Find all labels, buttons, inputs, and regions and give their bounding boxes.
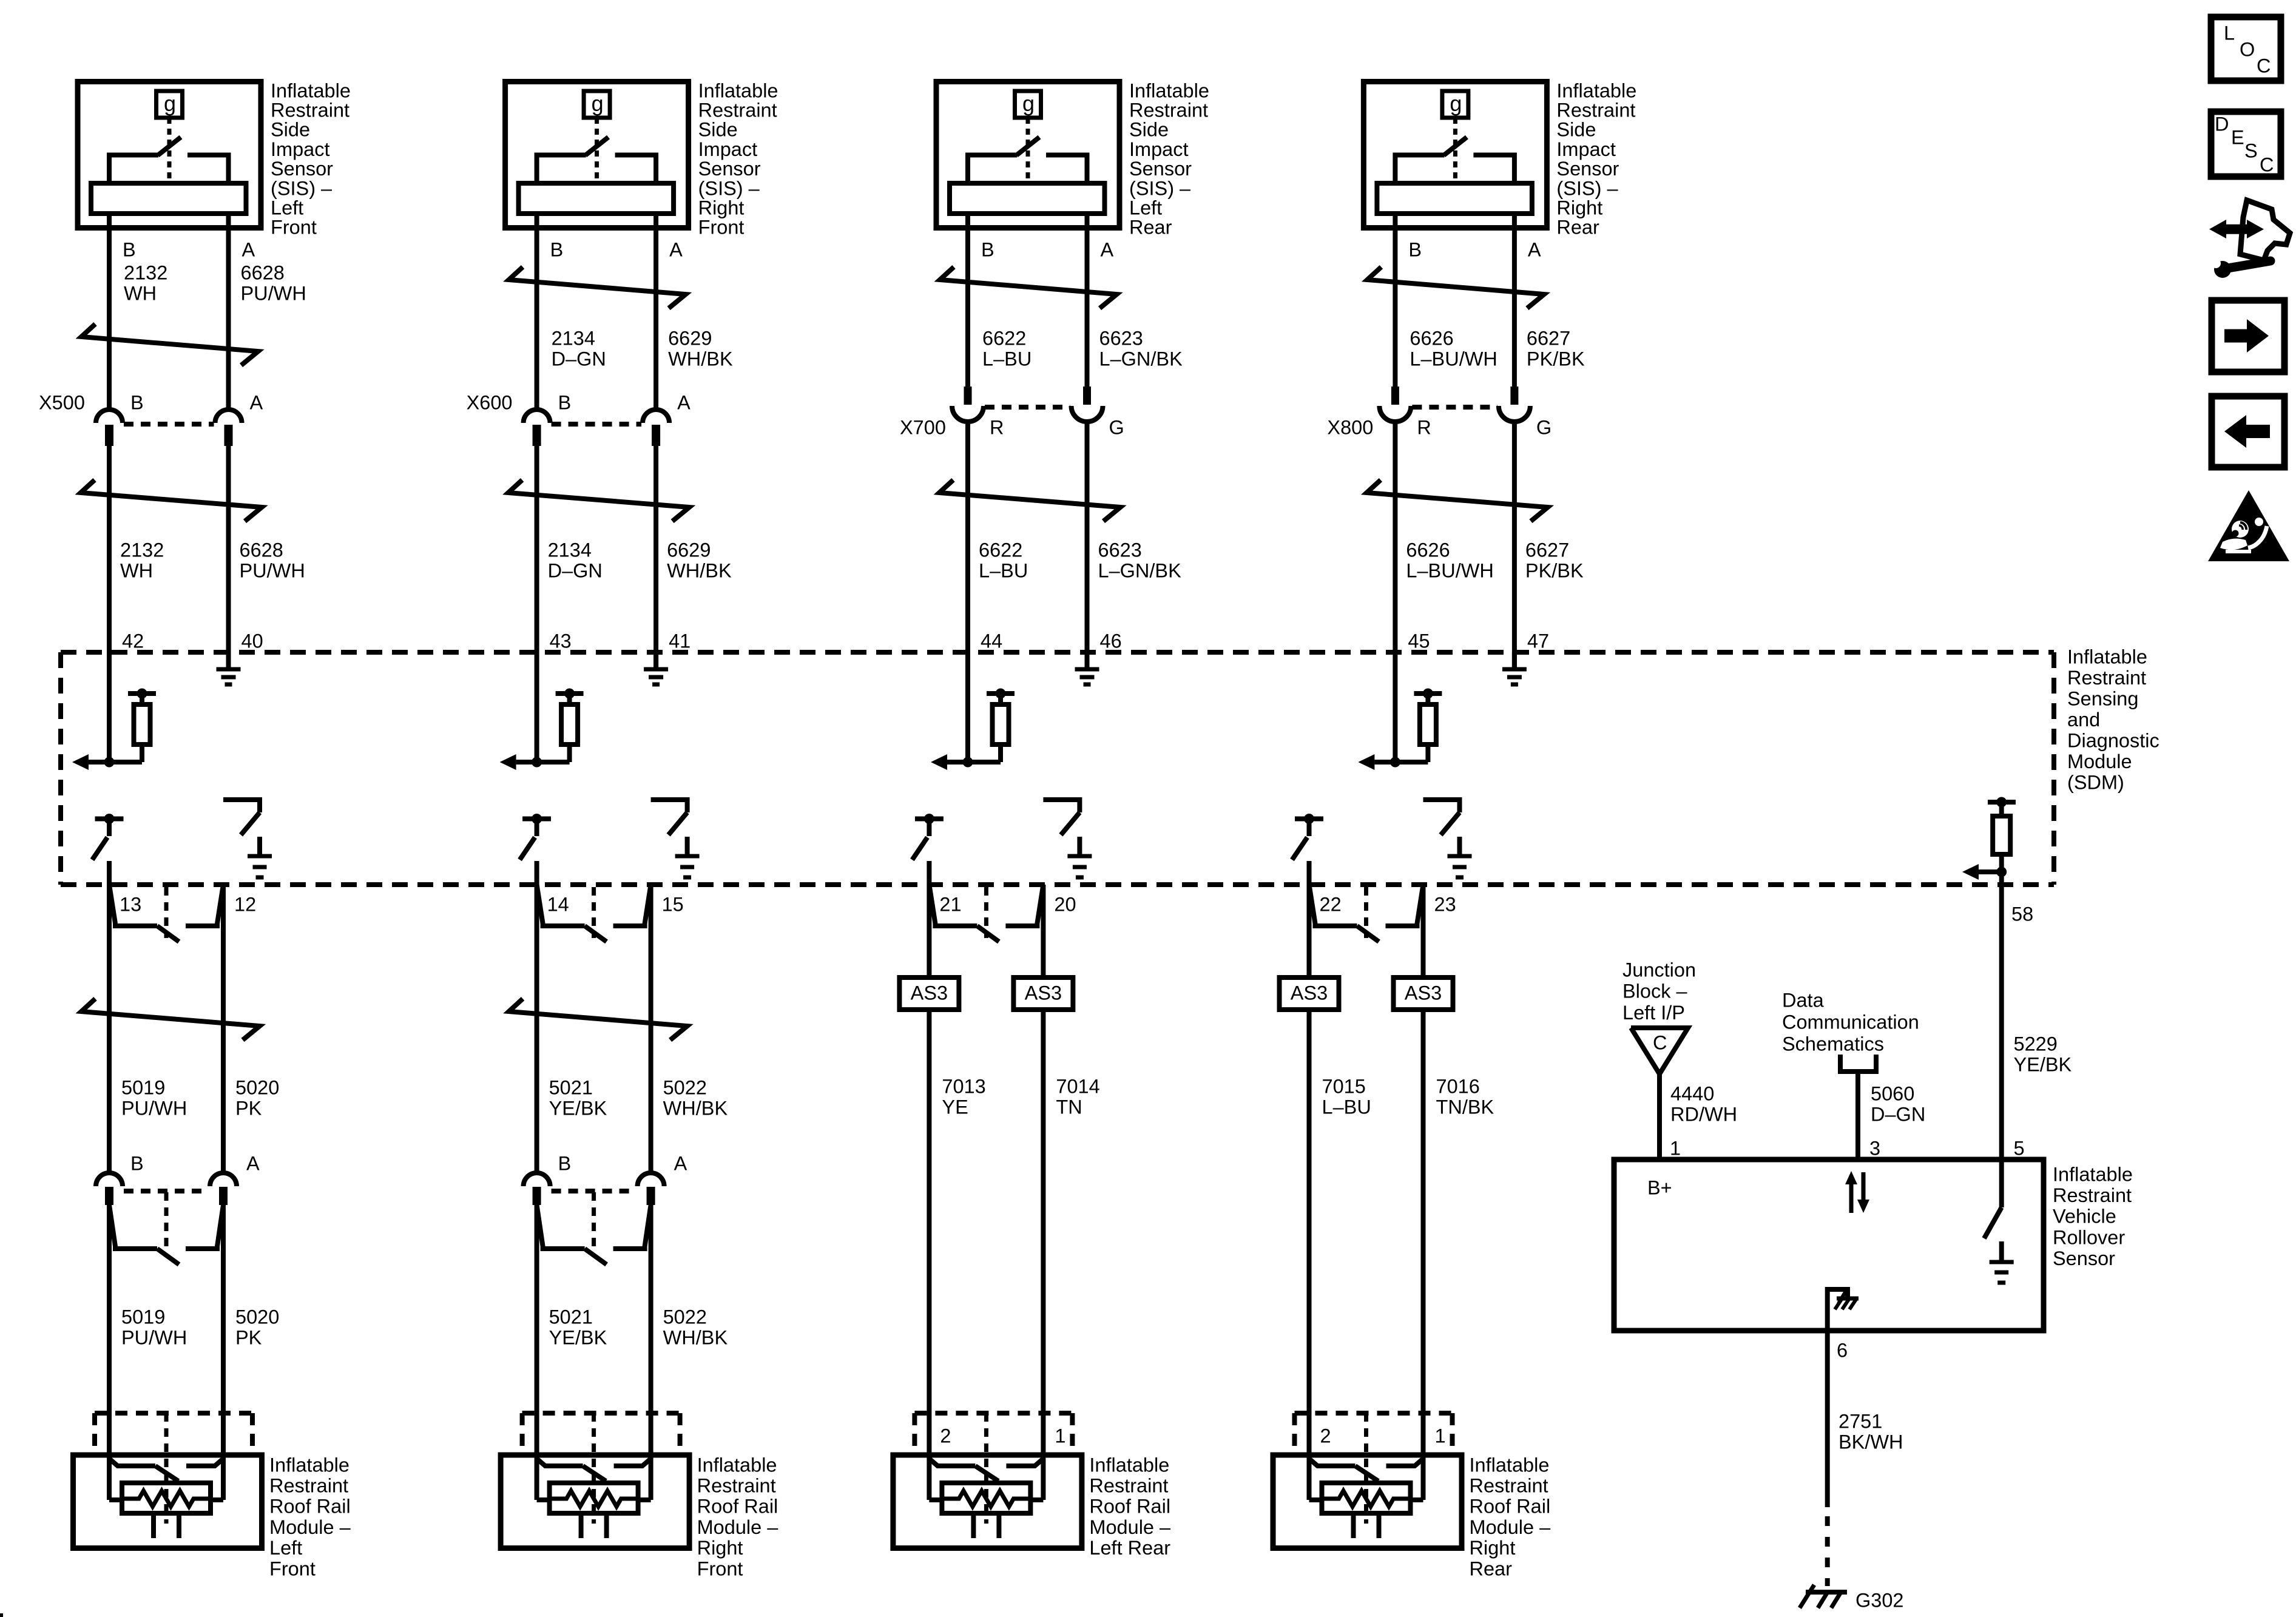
svg-text:6623: 6623	[1099, 327, 1143, 349]
in-line connector cavity B	[96, 1173, 123, 1205]
module internal connector left half	[537, 1459, 606, 1481]
SIS Left Front left contact	[109, 155, 158, 183]
wire label 6627 PK/BK	[1527, 327, 1585, 370]
svg-text:5019: 5019	[121, 1076, 165, 1098]
SIS Left Rear sensing element bar	[950, 183, 1105, 214]
right squib wire lower segment	[1041, 1011, 1045, 1451]
module squib wire right	[1411, 1451, 1423, 1500]
svg-text:23: 23	[1434, 893, 1456, 915]
svg-text:TN: TN	[1056, 1096, 1082, 1118]
svg-text:Restraint: Restraint	[1129, 100, 1208, 121]
SIS Right Front right contact	[615, 155, 657, 183]
svg-text:2132: 2132	[124, 262, 167, 283]
harness crossing symbol upper	[81, 324, 258, 365]
svg-text:2134: 2134	[548, 539, 592, 561]
connector X700 cavity G	[1072, 387, 1103, 422]
svg-text:Sensor: Sensor	[698, 158, 761, 180]
svg-text:YE/BK: YE/BK	[549, 1097, 607, 1119]
DESC navigation icon	[2211, 112, 2281, 177]
right squib wire lower segment	[649, 1205, 653, 1455]
svg-text:Rollover: Rollover	[2053, 1226, 2125, 1248]
svg-text:7015: 7015	[1322, 1075, 1366, 1097]
squib resistance element	[550, 1491, 638, 1507]
in-line connector at SDM pins 22/23 left half	[1309, 885, 1379, 942]
wire 5060 D-GN	[1855, 1072, 1860, 1160]
wire pin B lower segment to SDM	[965, 422, 970, 762]
svg-text:Front: Front	[697, 1558, 743, 1579]
svg-text:Inflatable: Inflatable	[269, 1454, 349, 1476]
roof rail module connector dashed outline	[914, 1413, 1072, 1451]
in-line connector dashed mating line	[124, 1189, 209, 1193]
svg-text:D: D	[2215, 113, 2229, 135]
rollover sensor internal ground	[1990, 1241, 2014, 1283]
svg-text:A: A	[242, 238, 255, 260]
svg-text:R: R	[1417, 416, 1431, 438]
svg-text:42: 42	[122, 630, 144, 652]
svg-text:E: E	[2231, 126, 2244, 148]
SDM internal switch to ground for pin 20	[1043, 800, 1092, 877]
svg-text:YE/BK: YE/BK	[549, 1326, 607, 1348]
harness crossing symbol (squib wires)	[509, 999, 687, 1040]
SDM pin 21 wire stub	[927, 861, 931, 885]
junction block connector C triangle	[1631, 1028, 1688, 1074]
connector X500 cavity B	[96, 410, 123, 446]
SIS Left Front right contact	[187, 155, 229, 183]
wire SIS-LF pin A upper segment	[226, 215, 231, 408]
SDM internal switch to ground for pin 12	[223, 800, 272, 877]
igniter leg left	[1351, 1513, 1356, 1538]
svg-text:BK/WH: BK/WH	[1838, 1431, 1903, 1453]
svg-text:PK/BK: PK/BK	[1527, 348, 1585, 370]
wire label 6626 L-BU/WH (repeat)	[1406, 539, 1493, 581]
svg-text:and: and	[2067, 709, 2100, 731]
in-line connector cavity A	[638, 1173, 664, 1205]
svg-text:AS3: AS3	[1291, 982, 1328, 1004]
AS3 splice package (right wire)	[1394, 977, 1453, 1010]
wire label 6629 WH/BK (repeat)	[667, 539, 732, 581]
svg-text:Schematics: Schematics	[1782, 1033, 1884, 1055]
SIS Right Front sensing element bar	[519, 183, 674, 214]
svg-text:6622: 6622	[982, 327, 1026, 349]
in-line connector at SDM pins 14/15 right half	[613, 885, 651, 926]
left squib wire lower segment	[535, 1205, 539, 1455]
svg-text:Restraint: Restraint	[2053, 1184, 2132, 1206]
svg-text:Left: Left	[269, 1537, 302, 1559]
igniter leg right	[604, 1513, 609, 1538]
in-line connector dashed mating line	[552, 1189, 636, 1193]
diagnostic tool icon	[2209, 200, 2290, 278]
SIS Right Rear switch blade	[1443, 137, 1467, 155]
svg-text:B: B	[558, 1152, 572, 1174]
svg-text:Module –: Module –	[1470, 1516, 1551, 1538]
svg-text:Left I/P: Left I/P	[1622, 1002, 1685, 1024]
igniter leg left	[579, 1513, 584, 1538]
svg-text:S: S	[2244, 140, 2258, 161]
SDM internal resistor/driver for pin 45	[1358, 689, 1442, 771]
harness crossing symbol lower	[939, 480, 1121, 521]
wire label 5021 YE/BK (repeat)	[549, 1306, 607, 1348]
right squib wire lower segment	[221, 1205, 226, 1455]
wire pin A lower segment to SDM	[653, 446, 658, 669]
svg-text:Sensor: Sensor	[271, 158, 333, 180]
wire label 2134 D-GN	[552, 327, 606, 370]
svg-text:Inflatable: Inflatable	[271, 79, 351, 101]
connector X600 cavity A	[643, 410, 669, 446]
svg-text:22: 22	[1320, 893, 1342, 915]
SIS Right Rear sensing element bar	[1377, 183, 1532, 214]
svg-text:(SDM): (SDM)	[2067, 771, 2124, 793]
svg-text:5022: 5022	[663, 1076, 707, 1098]
wire 4440 RD/WH	[1657, 1074, 1662, 1160]
svg-text:AS3: AS3	[1405, 982, 1442, 1004]
module squib wire right	[1030, 1451, 1043, 1500]
module connector center dashed line	[164, 1413, 169, 1524]
in-line connector bracket (squib) right half	[613, 1205, 651, 1249]
SDM pin 13 wire stub	[107, 861, 112, 885]
wire pin A lower segment to SDM	[226, 446, 231, 669]
wire SIS-RF pin A upper segment	[653, 215, 658, 408]
svg-text:g: g	[1022, 91, 1035, 116]
module squib wire right	[211, 1451, 223, 1500]
SDM label	[2067, 646, 2159, 793]
SDM internal firing switch for pin 14	[520, 814, 552, 860]
svg-text:g: g	[1450, 91, 1462, 116]
svg-text:A: A	[1528, 238, 1541, 260]
harness crossing symbol lower	[81, 480, 262, 521]
svg-text:Side: Side	[1129, 119, 1169, 141]
svg-text:O: O	[2240, 38, 2255, 60]
svg-text:B: B	[130, 391, 144, 413]
svg-text:PK: PK	[235, 1326, 262, 1348]
harness crossing symbol upper	[1367, 267, 1544, 308]
svg-text:X800: X800	[1327, 416, 1373, 438]
SIS Left Rear g-symbol box	[1015, 91, 1041, 118]
svg-text:A: A	[677, 391, 690, 413]
wire label 5060 D-GN	[1871, 1082, 1925, 1125]
right squib wire upper segment	[221, 885, 226, 1173]
module connector center dashed line	[1364, 1413, 1368, 1524]
svg-text:20: 20	[1054, 893, 1076, 915]
left squib wire upper segment	[107, 885, 112, 1173]
module squib wire left	[537, 1451, 550, 1500]
svg-text:PU/WH: PU/WH	[241, 282, 306, 304]
data schematics off-page bracket	[1840, 1055, 1876, 1072]
SDM internal firing switch for pin 13	[92, 814, 124, 860]
wire label 6628 PU/WH	[241, 262, 306, 304]
svg-text:R: R	[990, 416, 1004, 438]
wire label 6629 WH/BK	[668, 327, 733, 370]
SDM internal resistor/driver for pin 42	[72, 689, 156, 771]
svg-text:2132: 2132	[120, 539, 164, 561]
SIS Left Rear left contact	[968, 155, 1017, 183]
svg-text:B: B	[981, 238, 994, 260]
module internal connector right half	[1386, 1459, 1423, 1466]
wire label 5022 WH/BK	[663, 1076, 728, 1119]
inflatable restraint side impact sensor (SIS) Right Front box	[505, 82, 689, 228]
module squib wire left	[1309, 1451, 1322, 1500]
svg-text:Inflatable: Inflatable	[698, 79, 778, 101]
in-line connector bracket (squib) dashed divider	[164, 1192, 169, 1247]
right squib wire upper segment	[1421, 885, 1426, 975]
svg-text:Restraint: Restraint	[269, 1475, 348, 1497]
svg-text:7014: 7014	[1056, 1075, 1099, 1097]
svg-text:6629: 6629	[667, 539, 711, 561]
inflatable restraint vehicle rollover sensor box	[1614, 1160, 2044, 1331]
svg-text:Data: Data	[1782, 989, 1825, 1011]
wire label 6628 PU/WH (repeat)	[240, 539, 305, 581]
AS3 splice package (right wire)	[1013, 977, 1073, 1010]
igniter leg right	[996, 1513, 1001, 1538]
roof rail module connector dashed outline	[1295, 1413, 1453, 1451]
harness crossing symbol lower	[1366, 480, 1548, 521]
svg-text:B: B	[1408, 238, 1422, 260]
harness crossing symbol upper	[509, 267, 686, 308]
wire label 5021 YE/BK	[549, 1076, 607, 1119]
svg-text:A: A	[669, 238, 683, 260]
connector X500 dashed mating line	[124, 422, 214, 427]
svg-text:Inflatable: Inflatable	[1129, 79, 1209, 101]
wire SIS-RF pin B upper segment	[535, 215, 539, 408]
wire label 2134 D-GN (repeat)	[548, 539, 603, 581]
svg-text:6628: 6628	[240, 539, 283, 561]
svg-text:Inflatable: Inflatable	[2067, 646, 2147, 667]
svg-text:L–BU: L–BU	[982, 348, 1032, 370]
svg-text:5022: 5022	[663, 1306, 707, 1328]
svg-text:43: 43	[550, 630, 572, 652]
left squib wire upper segment	[927, 885, 931, 975]
svg-text:2134: 2134	[552, 327, 595, 349]
svg-text:Side: Side	[1556, 119, 1596, 141]
svg-text:(SIS) –: (SIS) –	[271, 177, 333, 199]
svg-text:Right: Right	[1470, 1537, 1516, 1559]
svg-text:15: 15	[662, 893, 684, 915]
wire 2751 dashed continuation	[1825, 1516, 1830, 1586]
wire SIS-LF pin B upper segment	[107, 215, 112, 408]
svg-text:44: 44	[981, 630, 1002, 652]
svg-text:7013: 7013	[942, 1075, 985, 1097]
right squib wire upper segment	[649, 885, 653, 1173]
roof rail module Right Rear label	[1470, 1454, 1551, 1579]
in-line connector bracket (squib) dashed divider	[592, 1192, 596, 1247]
module internal connector left half	[929, 1459, 998, 1481]
igniter leg left	[971, 1513, 976, 1538]
SDM pin 22 wire stub	[1307, 861, 1312, 885]
svg-text:Rear: Rear	[1129, 217, 1172, 238]
svg-text:Restraint: Restraint	[271, 100, 349, 121]
svg-text:g: g	[592, 91, 604, 116]
svg-text:2: 2	[940, 1425, 951, 1447]
module internal connector right half	[186, 1459, 223, 1466]
svg-text:Roof Rail: Roof Rail	[697, 1496, 778, 1517]
svg-text:5021: 5021	[549, 1076, 593, 1098]
wire pin A lower segment to SDM	[1085, 422, 1090, 669]
squib igniter box	[550, 1483, 638, 1513]
module squib wire left	[929, 1451, 942, 1500]
svg-text:6623: 6623	[1098, 539, 1142, 561]
svg-text:PU/WH: PU/WH	[121, 1097, 187, 1119]
SDM internal ground for pin 41	[644, 652, 668, 684]
svg-text:WH/BK: WH/BK	[667, 559, 732, 581]
svg-text:Front: Front	[698, 217, 745, 238]
igniter leg right	[1377, 1513, 1382, 1538]
svg-text:B: B	[130, 1152, 144, 1174]
svg-text:7016: 7016	[1436, 1075, 1480, 1097]
svg-text:47: 47	[1527, 630, 1549, 652]
svg-text:Right: Right	[698, 197, 745, 219]
svg-text:6626: 6626	[1406, 539, 1450, 561]
wire 2751 BK/WH	[1825, 1331, 1830, 1507]
SDM internal firing switch for pin 21	[912, 814, 944, 860]
module internal connector left half	[109, 1459, 178, 1481]
rollover sensor pin 5 internal switch	[1984, 1160, 2002, 1238]
svg-text:45: 45	[1408, 630, 1430, 652]
wire label 6623 L-GN/BK (repeat)	[1098, 539, 1182, 581]
igniter leg left	[151, 1513, 156, 1538]
svg-text:3: 3	[1869, 1137, 1880, 1159]
svg-text:6626: 6626	[1410, 327, 1453, 349]
svg-text:(SIS) –: (SIS) –	[698, 177, 760, 199]
svg-text:D–GN: D–GN	[548, 559, 603, 581]
wire pin B lower segment to SDM	[1393, 422, 1397, 762]
svg-text:A: A	[1101, 238, 1114, 260]
svg-text:6629: 6629	[668, 327, 712, 349]
svg-text:41: 41	[669, 630, 690, 652]
SDM internal switch to ground for pin 15	[651, 800, 700, 877]
in-line connector bracket (squib) left half	[109, 1205, 179, 1264]
connector X600 dashed mating line	[552, 422, 642, 427]
wire label 7015 L-BU	[1322, 1075, 1371, 1118]
svg-text:WH/BK: WH/BK	[663, 1097, 728, 1119]
page corner mark	[0, 1613, 3, 1617]
wire label 2751 BK/WH	[1838, 1410, 1903, 1453]
SIS Left Front switch blade	[158, 137, 181, 155]
inflatable restraint roof rail module Left Front box	[73, 1455, 262, 1548]
module internal connector right half	[614, 1459, 651, 1466]
wire pin B lower segment to SDM	[107, 446, 112, 762]
in-line connector bracket (squib) right half	[186, 1205, 223, 1249]
LOC navigation icon	[2211, 17, 2281, 81]
SDM internal switch to ground for pin 23	[1423, 800, 1472, 877]
SIS Right Rear label	[1556, 79, 1636, 238]
left squib wire upper segment	[535, 885, 539, 1173]
squib resistance element	[942, 1491, 1030, 1507]
svg-text:Communication: Communication	[1782, 1011, 1919, 1033]
svg-text:g: g	[164, 91, 176, 116]
left squib wire lower segment	[107, 1205, 112, 1455]
in-line connector at SDM pins 13/12 left half	[109, 885, 179, 942]
svg-text:Impact: Impact	[1556, 138, 1616, 160]
left squib wire lower segment	[927, 1011, 931, 1451]
SDM internal firing switch for pin 22	[1292, 814, 1324, 860]
roof rail module Left Rear label	[1089, 1454, 1171, 1559]
svg-text:Restraint: Restraint	[1089, 1475, 1168, 1497]
svg-text:Inflatable: Inflatable	[2053, 1163, 2133, 1185]
svg-text:WH/BK: WH/BK	[663, 1326, 728, 1348]
svg-text:Junction: Junction	[1622, 959, 1696, 981]
svg-text:L–BU: L–BU	[1322, 1096, 1371, 1118]
svg-text:Side: Side	[698, 119, 738, 141]
squib resistance element	[1322, 1491, 1411, 1507]
svg-text:Module –: Module –	[1089, 1516, 1171, 1538]
wire SIS-RR pin A upper segment	[1512, 215, 1517, 387]
SIS Left Rear internal dashed actuator line	[1026, 118, 1030, 182]
data communication schematics label	[1782, 989, 1919, 1055]
svg-text:L–GN/BK: L–GN/BK	[1098, 559, 1182, 581]
svg-text:Restraint: Restraint	[698, 100, 777, 121]
SIS Left Front sensing element bar	[91, 183, 246, 214]
wire label 6622 L-BU	[982, 327, 1032, 370]
SIS Left Rear right contact	[1046, 155, 1087, 183]
SIS Right Front switch blade	[586, 137, 609, 155]
module squib wire right	[638, 1451, 651, 1500]
in-line connector at SDM pins 22/23 right half	[1386, 885, 1423, 926]
wire label 7014 TN	[1056, 1075, 1099, 1118]
rollover sensor data arrows	[1845, 1171, 1869, 1213]
wire label 5022 WH/BK (repeat)	[663, 1306, 728, 1348]
svg-text:Left Rear: Left Rear	[1089, 1537, 1170, 1559]
svg-text:Inflatable: Inflatable	[1089, 1454, 1169, 1476]
forward arrow icon	[2212, 300, 2284, 372]
rollover sensor label	[2053, 1163, 2133, 1269]
svg-text:5060: 5060	[1871, 1082, 1914, 1104]
module connector center dashed line	[984, 1413, 988, 1524]
SIS Right Front left contact	[537, 155, 586, 183]
wire pin A lower segment to SDM	[1512, 422, 1517, 669]
harness crossing symbol upper	[940, 267, 1117, 308]
svg-text:A: A	[674, 1152, 687, 1174]
roof rail module connector dashed outline	[95, 1413, 252, 1451]
svg-text:AS3: AS3	[1025, 982, 1062, 1004]
svg-text:L–BU/WH: L–BU/WH	[1406, 559, 1493, 581]
back arrow icon	[2212, 396, 2284, 467]
SIS Left Front internal dashed actuator line	[167, 118, 172, 182]
in-line connector at SDM pins 21/20 dashed divider	[984, 887, 988, 938]
SIS Right Front g-symbol box	[584, 91, 610, 118]
right squib wire lower segment	[1421, 1011, 1426, 1451]
svg-text:Vehicle: Vehicle	[2053, 1206, 2116, 1227]
module internal connector left half	[1309, 1459, 1379, 1481]
svg-text:12: 12	[234, 893, 256, 915]
inflatable restraint side impact sensor (SIS) Left Rear box	[936, 82, 1119, 228]
svg-text:5020: 5020	[235, 1076, 279, 1098]
roof rail module Right Front label	[697, 1454, 779, 1579]
svg-text:L: L	[2224, 22, 2235, 44]
SDM pin 14 wire stub	[535, 861, 539, 885]
squib igniter box	[122, 1483, 211, 1513]
SDM internal ground for pin 40	[217, 652, 241, 684]
svg-text:1: 1	[1670, 1137, 1681, 1159]
svg-text:40: 40	[241, 630, 263, 652]
wire label 4440 RD/WH	[1670, 1082, 1737, 1125]
svg-text:Module: Module	[2067, 751, 2132, 772]
svg-text:G: G	[1109, 416, 1124, 438]
wire label 7016 TN/BK	[1436, 1075, 1494, 1118]
in-line connector at SDM pins 21/20 left half	[929, 885, 999, 942]
svg-text:2: 2	[1320, 1425, 1331, 1447]
SIS Left Rear switch blade	[1016, 137, 1039, 155]
svg-text:Roof Rail: Roof Rail	[1089, 1496, 1170, 1517]
svg-text:B: B	[558, 391, 572, 413]
module squib wire left	[109, 1451, 122, 1500]
svg-text:PK: PK	[235, 1097, 262, 1119]
svg-text:4440: 4440	[1670, 1082, 1714, 1104]
svg-text:46: 46	[1100, 630, 1122, 652]
squib igniter box	[1322, 1483, 1411, 1513]
wire SIS-RR pin B upper segment	[1393, 215, 1397, 387]
in-line connector bracket (squib) left half	[537, 1205, 607, 1264]
left squib wire lower segment	[1307, 1011, 1312, 1451]
svg-text:YE/BK: YE/BK	[2014, 1053, 2072, 1075]
